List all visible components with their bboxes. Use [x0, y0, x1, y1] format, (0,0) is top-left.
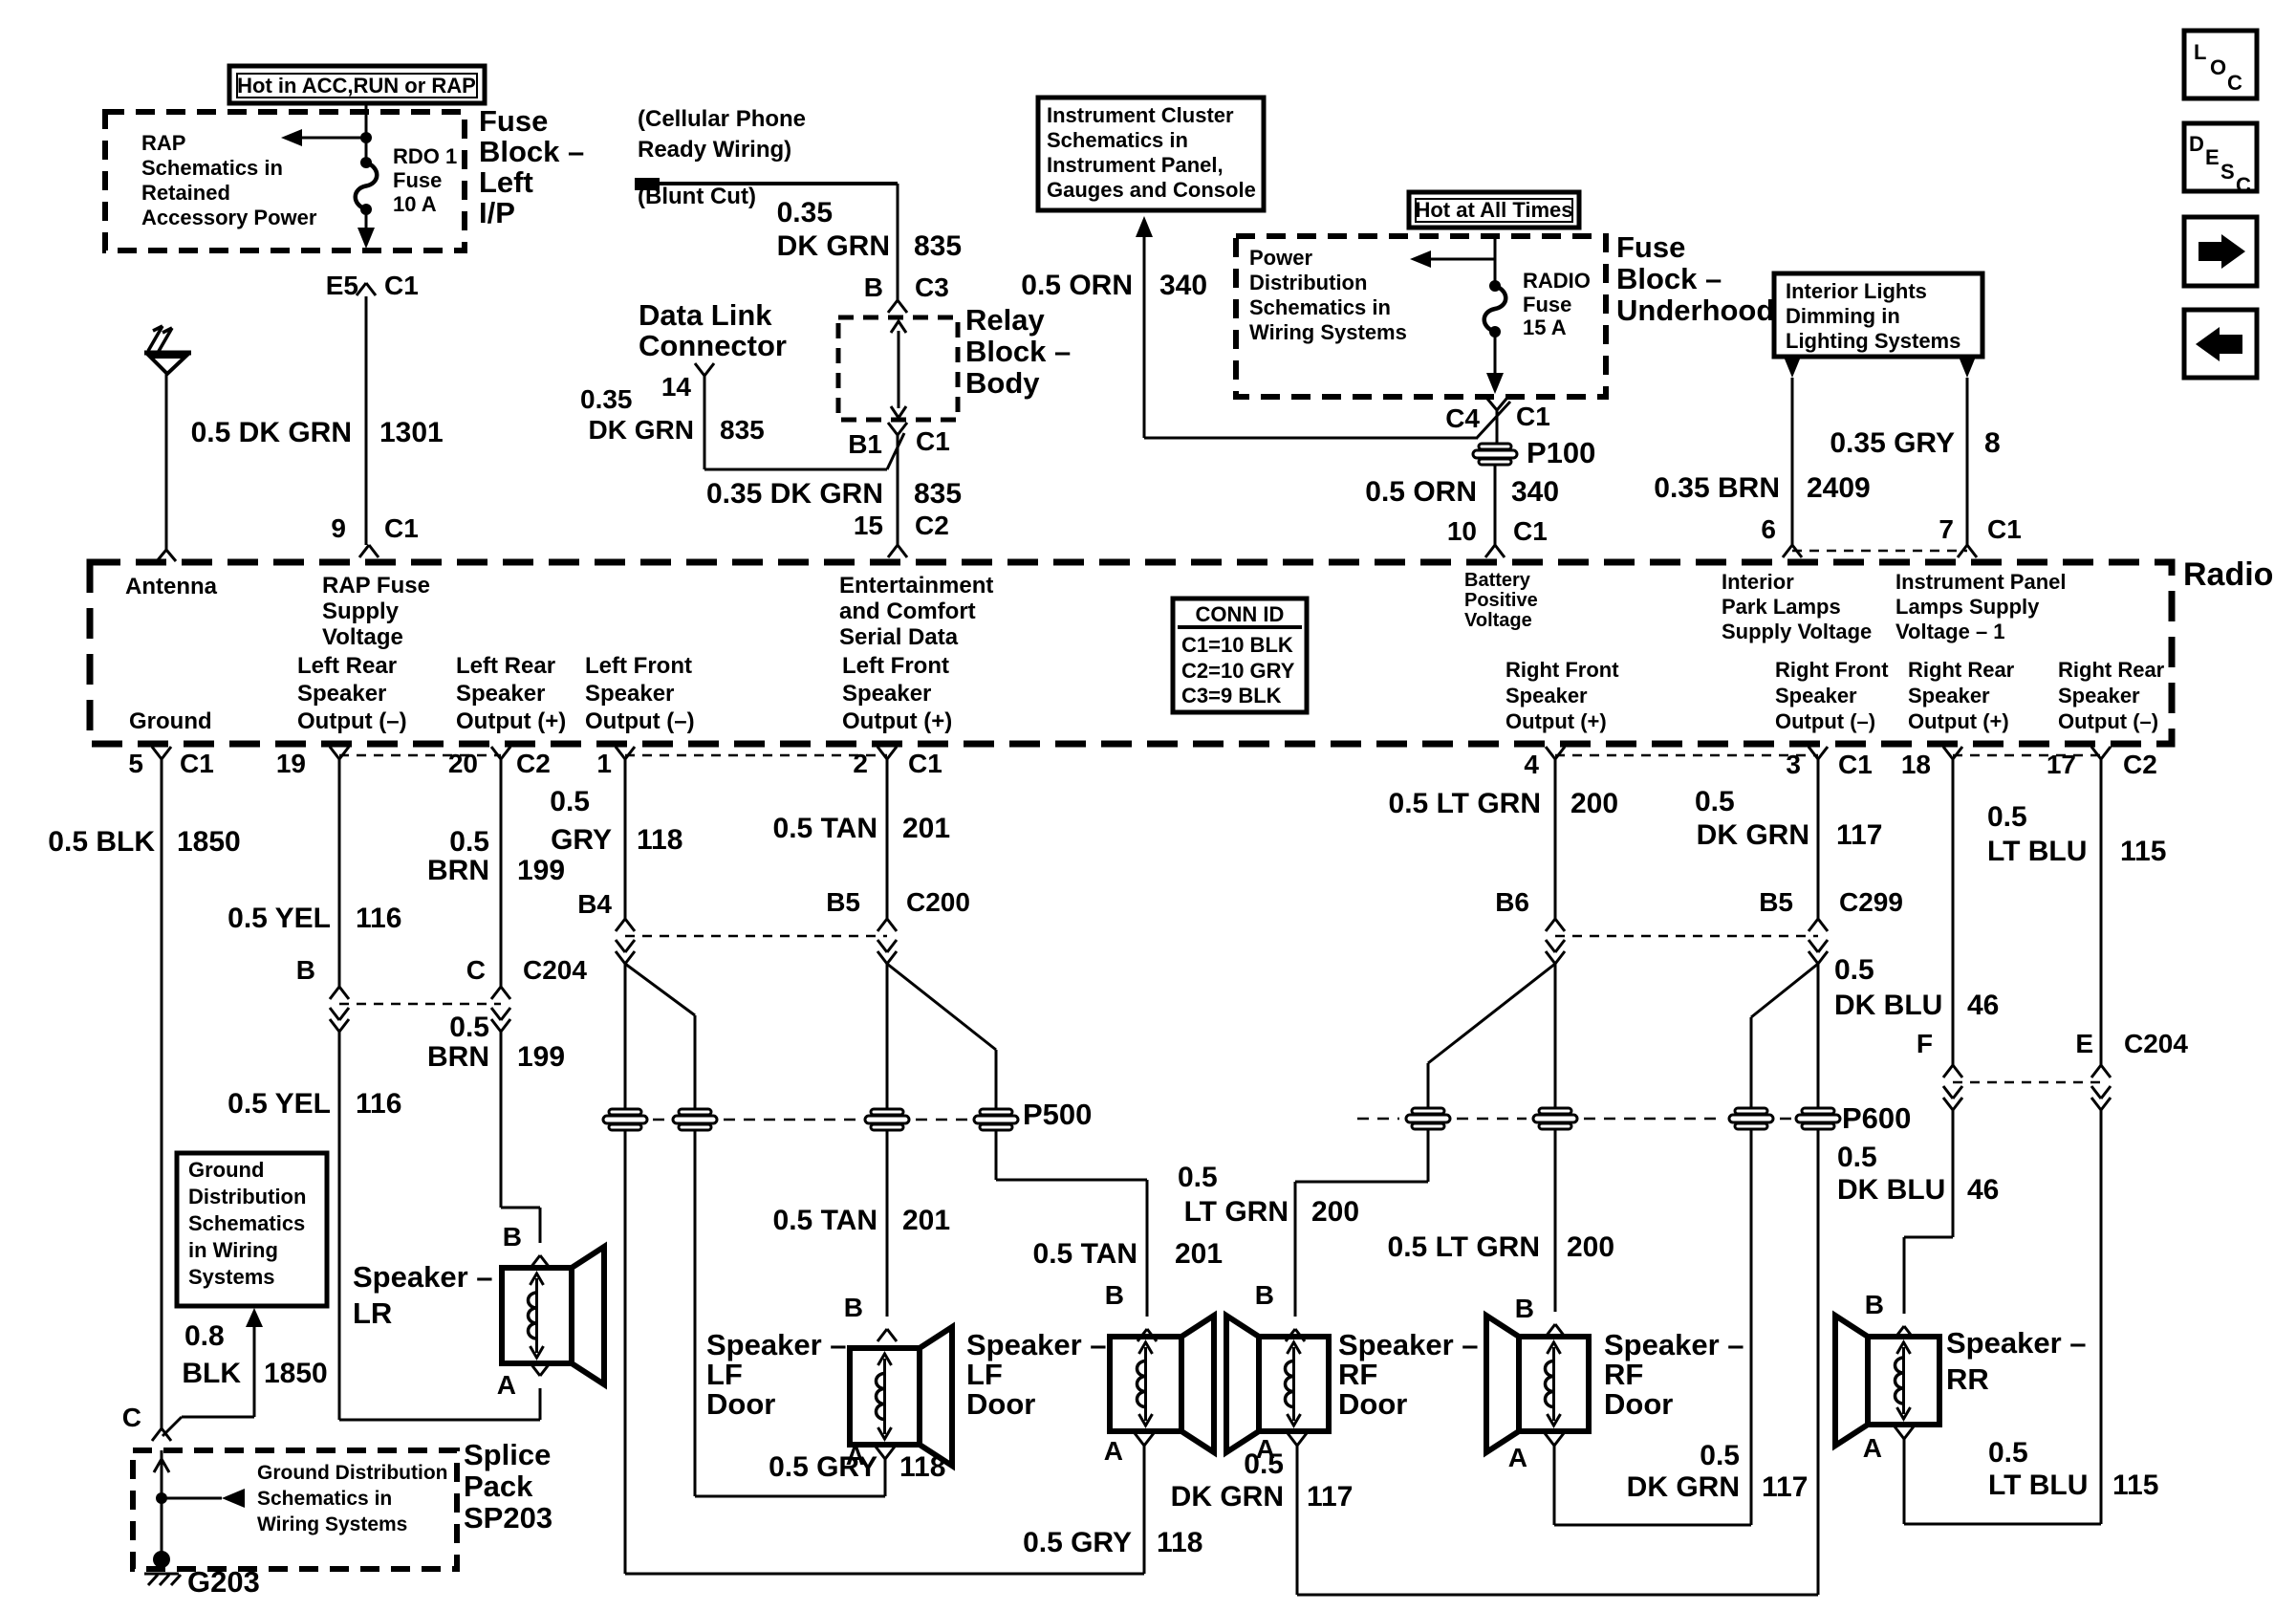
svg-text:Positive: Positive: [1464, 590, 1538, 611]
svg-text:Radio: Radio: [2183, 556, 2273, 593]
svg-text:C2: C2: [516, 749, 551, 778]
svg-text:Systems: Systems: [188, 1265, 275, 1289]
svg-text:2409: 2409: [1807, 472, 1871, 504]
svg-text:0.5: 0.5: [1178, 1162, 1218, 1193]
svg-text:0.35: 0.35: [777, 197, 833, 229]
svg-text:Hot at All Times: Hot at All Times: [1415, 198, 1572, 222]
svg-text:Door: Door: [966, 1387, 1035, 1421]
svg-text:Speaker –: Speaker –: [1604, 1328, 1744, 1361]
svg-text:Ready Wiring): Ready Wiring): [638, 137, 791, 163]
svg-text:SP203: SP203: [464, 1501, 552, 1535]
svg-text:835: 835: [720, 415, 765, 445]
svg-text:117: 117: [1307, 1481, 1353, 1513]
svg-text:Fuse: Fuse: [479, 104, 548, 138]
svg-text:C1: C1: [908, 749, 942, 778]
svg-text:Pack: Pack: [464, 1469, 533, 1503]
svg-text:199: 199: [517, 1041, 565, 1073]
svg-text:0.5: 0.5: [1987, 801, 2027, 833]
svg-text:835: 835: [914, 230, 962, 262]
svg-text:0.5: 0.5: [449, 826, 489, 858]
svg-text:Speaker: Speaker: [585, 681, 674, 707]
svg-text:RAP Fuse: RAP Fuse: [322, 573, 430, 599]
svg-text:Right Front: Right Front: [1505, 658, 1619, 682]
svg-text:117: 117: [1762, 1471, 1808, 1503]
svg-text:2: 2: [853, 749, 868, 778]
svg-text:Output (–): Output (–): [2058, 709, 2158, 733]
svg-text:7: 7: [1939, 514, 1954, 544]
svg-text:C3=9 BLK: C3=9 BLK: [1181, 684, 1282, 708]
svg-text:RADIO: RADIO: [1523, 269, 1591, 293]
svg-text:0.5 LT GRN: 0.5 LT GRN: [1389, 788, 1541, 819]
svg-text:10 A: 10 A: [393, 192, 437, 216]
svg-text:340: 340: [1159, 270, 1207, 301]
svg-text:15: 15: [854, 511, 883, 540]
svg-text:Speaker: Speaker: [2058, 684, 2140, 708]
svg-text:C299: C299: [1839, 887, 1903, 917]
svg-text:A: A: [1508, 1443, 1527, 1472]
svg-text:Speaker: Speaker: [842, 681, 931, 707]
svg-text:Speaker –: Speaker –: [1338, 1328, 1479, 1361]
svg-text:Serial Data: Serial Data: [839, 624, 959, 650]
svg-text:116: 116: [356, 1088, 401, 1120]
svg-text:RF: RF: [1604, 1358, 1643, 1391]
svg-text:DK GRN: DK GRN: [1627, 1471, 1740, 1503]
svg-text:0.5: 0.5: [1695, 786, 1735, 817]
svg-text:C1: C1: [384, 513, 419, 543]
svg-text:0.5: 0.5: [1700, 1440, 1740, 1471]
svg-text:18: 18: [1901, 750, 1931, 779]
svg-text:B: B: [1255, 1280, 1274, 1310]
svg-text:Gauges and Console: Gauges and Console: [1047, 178, 1256, 202]
svg-text:C: C: [2227, 71, 2242, 95]
svg-text:0.5 ORN: 0.5 ORN: [1365, 476, 1477, 508]
svg-text:Data Link: Data Link: [639, 298, 772, 332]
svg-text:0.5 TAN: 0.5 TAN: [773, 813, 877, 844]
svg-text:Fuse: Fuse: [393, 168, 442, 192]
svg-text:Wiring Systems: Wiring Systems: [257, 1513, 407, 1535]
svg-text:D: D: [2189, 132, 2204, 156]
svg-text:Wiring Systems: Wiring Systems: [1249, 320, 1407, 344]
svg-text:3: 3: [1786, 750, 1801, 779]
svg-text:Output (–): Output (–): [1775, 709, 1875, 733]
svg-text:C: C: [2236, 173, 2251, 197]
svg-text:RDO 1: RDO 1: [393, 144, 457, 168]
svg-text:Park Lamps: Park Lamps: [1722, 595, 1841, 619]
svg-text:0.35 BRN: 0.35 BRN: [1654, 472, 1780, 504]
svg-text:1850: 1850: [264, 1358, 328, 1389]
svg-text:BRN: BRN: [427, 1041, 489, 1073]
svg-text:B: B: [503, 1222, 522, 1252]
svg-text:Interior: Interior: [1722, 570, 1794, 594]
svg-text:0.5: 0.5: [1834, 954, 1874, 986]
svg-text:0.5: 0.5: [1837, 1142, 1877, 1173]
svg-text:Interior Lights: Interior Lights: [1786, 279, 1927, 303]
svg-text:S: S: [2220, 160, 2235, 184]
svg-text:F: F: [1917, 1029, 1933, 1058]
svg-text:340: 340: [1511, 476, 1559, 508]
svg-text:200: 200: [1570, 788, 1618, 819]
svg-text:C1: C1: [916, 426, 950, 456]
svg-text:B: B: [1865, 1290, 1884, 1319]
svg-text:Accessory Power: Accessory Power: [141, 206, 317, 229]
svg-text:L: L: [2194, 40, 2206, 64]
svg-text:B4: B4: [577, 889, 612, 919]
svg-text:Connector: Connector: [639, 329, 787, 362]
svg-text:Schematics in: Schematics in: [1047, 128, 1188, 152]
svg-text:C4: C4: [1445, 403, 1480, 433]
svg-text:C1: C1: [180, 749, 214, 778]
svg-text:Speaker –: Speaker –: [1946, 1326, 2087, 1360]
svg-text:Dimming in: Dimming in: [1786, 304, 1900, 328]
svg-text:Ground: Ground: [188, 1158, 264, 1182]
svg-text:199: 199: [517, 855, 565, 886]
svg-text:and Comfort: and Comfort: [839, 599, 976, 624]
svg-text:DK BLU: DK BLU: [1837, 1174, 1945, 1206]
svg-text:Ground Distribution: Ground Distribution: [257, 1462, 447, 1484]
svg-text:Splice: Splice: [464, 1438, 551, 1471]
svg-text:Right Front: Right Front: [1775, 658, 1889, 682]
svg-text:Output (+): Output (+): [1908, 709, 2009, 733]
svg-text:Left Rear: Left Rear: [297, 653, 397, 679]
svg-text:Left Front: Left Front: [585, 653, 692, 679]
svg-text:C2=10 GRY: C2=10 GRY: [1181, 659, 1295, 683]
svg-text:C1: C1: [384, 271, 419, 300]
svg-text:Distribution: Distribution: [1249, 271, 1367, 294]
svg-text:O: O: [2210, 55, 2226, 79]
svg-text:LF: LF: [966, 1358, 1003, 1391]
svg-text:10: 10: [1447, 516, 1477, 546]
svg-text:GRY: GRY: [551, 824, 612, 856]
svg-text:0.5: 0.5: [550, 786, 590, 817]
svg-text:P500: P500: [1023, 1098, 1092, 1131]
svg-text:RAP: RAP: [141, 131, 185, 155]
svg-text:LT BLU: LT BLU: [1988, 1469, 2088, 1501]
svg-text:BRN: BRN: [427, 855, 489, 886]
svg-text:Distribution: Distribution: [188, 1185, 306, 1208]
svg-text:P100: P100: [1527, 436, 1595, 469]
svg-text:B: B: [296, 955, 315, 985]
svg-text:Voltage: Voltage: [1464, 610, 1532, 631]
svg-text:46: 46: [1967, 990, 1999, 1021]
svg-text:Left Rear: Left Rear: [456, 653, 555, 679]
svg-text:4: 4: [1524, 750, 1539, 779]
svg-text:E: E: [2205, 145, 2220, 169]
svg-text:RF: RF: [1338, 1358, 1377, 1391]
svg-text:Left: Left: [479, 165, 533, 199]
svg-text:Fuse: Fuse: [1523, 293, 1571, 316]
svg-text:8: 8: [1984, 427, 2001, 459]
svg-text:0.5 YEL: 0.5 YEL: [227, 1088, 331, 1120]
svg-text:0.5 TAN: 0.5 TAN: [1033, 1238, 1137, 1270]
svg-text:E5: E5: [326, 271, 358, 300]
svg-text:Output (+): Output (+): [1505, 709, 1607, 733]
svg-text:C204: C204: [523, 955, 587, 985]
svg-text:Instrument Cluster: Instrument Cluster: [1047, 103, 1234, 127]
svg-text:Relay: Relay: [965, 303, 1045, 337]
svg-text:Speaker –: Speaker –: [966, 1328, 1107, 1361]
svg-text:I/P: I/P: [479, 196, 515, 229]
svg-text:Entertainment: Entertainment: [839, 573, 993, 599]
svg-text:B5: B5: [1759, 887, 1793, 917]
svg-text:Lighting Systems: Lighting Systems: [1786, 329, 1960, 353]
svg-text:20: 20: [448, 749, 478, 778]
svg-text:0.35 DK GRN: 0.35 DK GRN: [706, 478, 883, 510]
svg-text:0.5 GRY: 0.5 GRY: [1023, 1527, 1132, 1558]
svg-text:5: 5: [128, 749, 143, 778]
svg-text:LT BLU: LT BLU: [1987, 836, 2087, 867]
svg-text:C1: C1: [1838, 750, 1873, 779]
svg-text:Underhood: Underhood: [1616, 294, 1774, 327]
svg-text:C1=10 BLK: C1=10 BLK: [1181, 633, 1293, 657]
svg-text:(Blunt Cut): (Blunt Cut): [638, 184, 756, 209]
svg-text:Block –: Block –: [479, 135, 584, 168]
svg-text:A: A: [497, 1370, 516, 1400]
svg-text:Speaker: Speaker: [1775, 684, 1857, 708]
svg-text:C204: C204: [2124, 1029, 2188, 1058]
svg-text:C2: C2: [915, 511, 949, 540]
svg-text:0.5 ORN: 0.5 ORN: [1021, 270, 1133, 301]
svg-text:115: 115: [2120, 836, 2166, 867]
svg-text:Schematics in: Schematics in: [1249, 295, 1391, 319]
svg-text:Speaker: Speaker: [456, 681, 545, 707]
svg-text:201: 201: [902, 813, 950, 844]
svg-text:Instrument Panel: Instrument Panel: [1895, 570, 2066, 594]
svg-text:Voltage – 1: Voltage – 1: [1895, 620, 2005, 643]
svg-text:0.8: 0.8: [184, 1320, 225, 1352]
svg-text:118: 118: [637, 824, 682, 856]
svg-text:A: A: [1104, 1436, 1123, 1466]
svg-text:Instrument Panel,: Instrument Panel,: [1047, 153, 1224, 177]
svg-text:Schematics: Schematics: [188, 1211, 305, 1235]
svg-text:DK GRN: DK GRN: [777, 230, 890, 262]
svg-text:116: 116: [356, 903, 401, 934]
svg-text:B: B: [1105, 1280, 1124, 1310]
svg-text:Output (+): Output (+): [456, 708, 566, 734]
svg-text:201: 201: [902, 1205, 950, 1236]
svg-text:LF: LF: [706, 1358, 743, 1391]
svg-text:Fuse: Fuse: [1616, 230, 1685, 264]
svg-text:B6: B6: [1495, 887, 1529, 917]
svg-text:DK BLU: DK BLU: [1834, 990, 1942, 1021]
svg-text:LT GRN: LT GRN: [1184, 1196, 1289, 1228]
svg-text:C: C: [466, 955, 486, 985]
svg-text:Schematics in: Schematics in: [257, 1488, 392, 1510]
svg-text:Hot in ACC,RUN or RAP: Hot in ACC,RUN or RAP: [237, 74, 476, 98]
svg-text:CONN ID: CONN ID: [1196, 602, 1285, 626]
svg-text:Battery: Battery: [1464, 570, 1531, 591]
svg-text:(Cellular Phone: (Cellular Phone: [638, 106, 806, 132]
svg-text:C1: C1: [1516, 402, 1550, 431]
svg-text:200: 200: [1567, 1231, 1614, 1263]
svg-text:Speaker: Speaker: [1505, 684, 1588, 708]
svg-text:19: 19: [276, 749, 306, 778]
svg-text:17: 17: [2047, 750, 2076, 779]
svg-text:0.5 YEL: 0.5 YEL: [227, 903, 331, 934]
svg-text:RR: RR: [1946, 1362, 1989, 1396]
svg-text:0.5: 0.5: [449, 1012, 489, 1043]
svg-text:Power: Power: [1249, 246, 1312, 270]
svg-text:DK GRN: DK GRN: [1171, 1481, 1284, 1513]
svg-text:DK GRN: DK GRN: [1697, 819, 1809, 851]
svg-text:Speaker –: Speaker –: [706, 1328, 847, 1361]
svg-text:1850: 1850: [177, 826, 241, 858]
svg-text:0.5 TAN: 0.5 TAN: [773, 1205, 877, 1236]
svg-text:Schematics in: Schematics in: [141, 156, 283, 180]
svg-text:B5: B5: [826, 887, 860, 917]
svg-text:Output (+): Output (+): [842, 708, 952, 734]
svg-text:Output (–): Output (–): [585, 708, 695, 734]
svg-text:Block –: Block –: [1616, 262, 1722, 295]
svg-text:BLK: BLK: [182, 1358, 241, 1389]
svg-text:0.5 DK GRN: 0.5 DK GRN: [191, 417, 352, 448]
svg-text:9: 9: [331, 513, 346, 543]
svg-text:0.5: 0.5: [1988, 1437, 2028, 1469]
svg-text:0.35 GRY: 0.35 GRY: [1830, 427, 1955, 459]
svg-text:G203: G203: [187, 1565, 260, 1599]
svg-text:Antenna: Antenna: [125, 574, 218, 599]
svg-text:P600: P600: [1842, 1101, 1911, 1135]
svg-text:200: 200: [1311, 1196, 1359, 1228]
svg-text:in Wiring: in Wiring: [188, 1238, 278, 1262]
svg-text:14: 14: [661, 372, 692, 402]
svg-text:C1: C1: [1987, 514, 2022, 544]
svg-text:C1: C1: [1513, 516, 1548, 546]
svg-text:C: C: [122, 1403, 141, 1432]
svg-text:46: 46: [1967, 1174, 1999, 1206]
svg-text:E: E: [2075, 1029, 2093, 1058]
svg-text:DK GRN: DK GRN: [589, 415, 694, 445]
svg-text:Speaker: Speaker: [1908, 684, 1990, 708]
svg-text:Voltage: Voltage: [322, 624, 403, 650]
svg-text:835: 835: [914, 478, 962, 510]
svg-text:118: 118: [1157, 1527, 1202, 1558]
svg-text:15 A: 15 A: [1523, 316, 1567, 339]
svg-text:Right Rear: Right Rear: [2058, 658, 2165, 682]
svg-text:A: A: [846, 1441, 865, 1470]
svg-text:C200: C200: [906, 887, 970, 917]
svg-text:Lamps Supply: Lamps Supply: [1895, 595, 2040, 619]
svg-text:B: B: [1515, 1294, 1534, 1323]
svg-text:Supply: Supply: [322, 599, 400, 624]
svg-text:115: 115: [2112, 1469, 2158, 1501]
svg-text:B1: B1: [848, 429, 882, 459]
svg-text:Ground: Ground: [129, 708, 212, 734]
svg-text:Right Rear: Right Rear: [1908, 658, 2015, 682]
svg-text:Block –: Block –: [965, 335, 1071, 368]
svg-text:Speaker: Speaker: [297, 681, 386, 707]
svg-text:B: B: [844, 1293, 863, 1322]
svg-text:LR: LR: [353, 1296, 392, 1330]
svg-text:117: 117: [1836, 819, 1882, 851]
svg-text:Retained: Retained: [141, 181, 230, 205]
svg-text:C2: C2: [2123, 750, 2157, 779]
svg-text:Body: Body: [965, 366, 1040, 400]
svg-text:Supply Voltage: Supply Voltage: [1722, 620, 1872, 643]
svg-text:0.35: 0.35: [580, 384, 633, 414]
svg-text:6: 6: [1761, 514, 1776, 544]
svg-text:0.5 BLK: 0.5 BLK: [48, 826, 155, 858]
svg-text:C3: C3: [915, 272, 949, 302]
svg-text:Door: Door: [706, 1387, 775, 1421]
svg-text:Output (–): Output (–): [297, 708, 407, 734]
svg-text:B: B: [864, 272, 883, 302]
svg-text:Left Front: Left Front: [842, 653, 949, 679]
svg-text:Door: Door: [1338, 1387, 1407, 1421]
svg-text:0.5 LT GRN: 0.5 LT GRN: [1388, 1231, 1540, 1263]
svg-text:A: A: [1863, 1433, 1882, 1463]
svg-text:A: A: [1256, 1434, 1275, 1464]
svg-text:201: 201: [1175, 1238, 1223, 1270]
svg-text:1301: 1301: [379, 417, 444, 448]
svg-text:Door: Door: [1604, 1387, 1673, 1421]
svg-text:1: 1: [596, 749, 612, 778]
svg-text:Speaker –: Speaker –: [353, 1260, 493, 1294]
